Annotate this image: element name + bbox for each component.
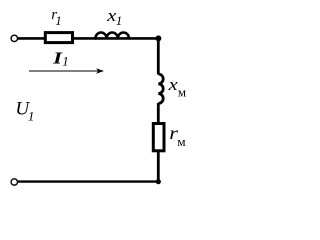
label U1 <box>15 99 34 124</box>
junction node A <box>155 35 161 41</box>
resistor rm <box>153 124 164 151</box>
wire vertical lower <box>157 151 160 182</box>
label r1 <box>51 7 62 28</box>
terminal T2 (bottom) <box>11 179 17 185</box>
wire between xm and rm <box>157 103 160 123</box>
svg-text:1: 1 <box>55 13 62 28</box>
svg-text:м: м <box>177 134 185 149</box>
wire between r1 and x1 <box>74 37 97 40</box>
junction node B <box>156 179 161 184</box>
wire bottom <box>18 180 160 182</box>
inductor x1 <box>95 33 159 39</box>
resistor r1 <box>45 33 72 43</box>
terminal T1 (top input) <box>11 35 17 41</box>
label I1 <box>52 49 69 69</box>
svg-text:1: 1 <box>28 108 35 123</box>
wire vertical upper <box>157 38 160 74</box>
inductor xm <box>158 74 163 103</box>
svg-text:1: 1 <box>116 13 123 28</box>
label xm <box>168 75 187 99</box>
svg-text:x: x <box>168 75 179 94</box>
wire top-left <box>18 37 45 40</box>
label x1 <box>106 7 122 28</box>
label rm <box>169 124 185 149</box>
current arrow I1 <box>29 68 104 74</box>
svg-text:м: м <box>178 85 186 100</box>
svg-text:1: 1 <box>62 54 68 69</box>
